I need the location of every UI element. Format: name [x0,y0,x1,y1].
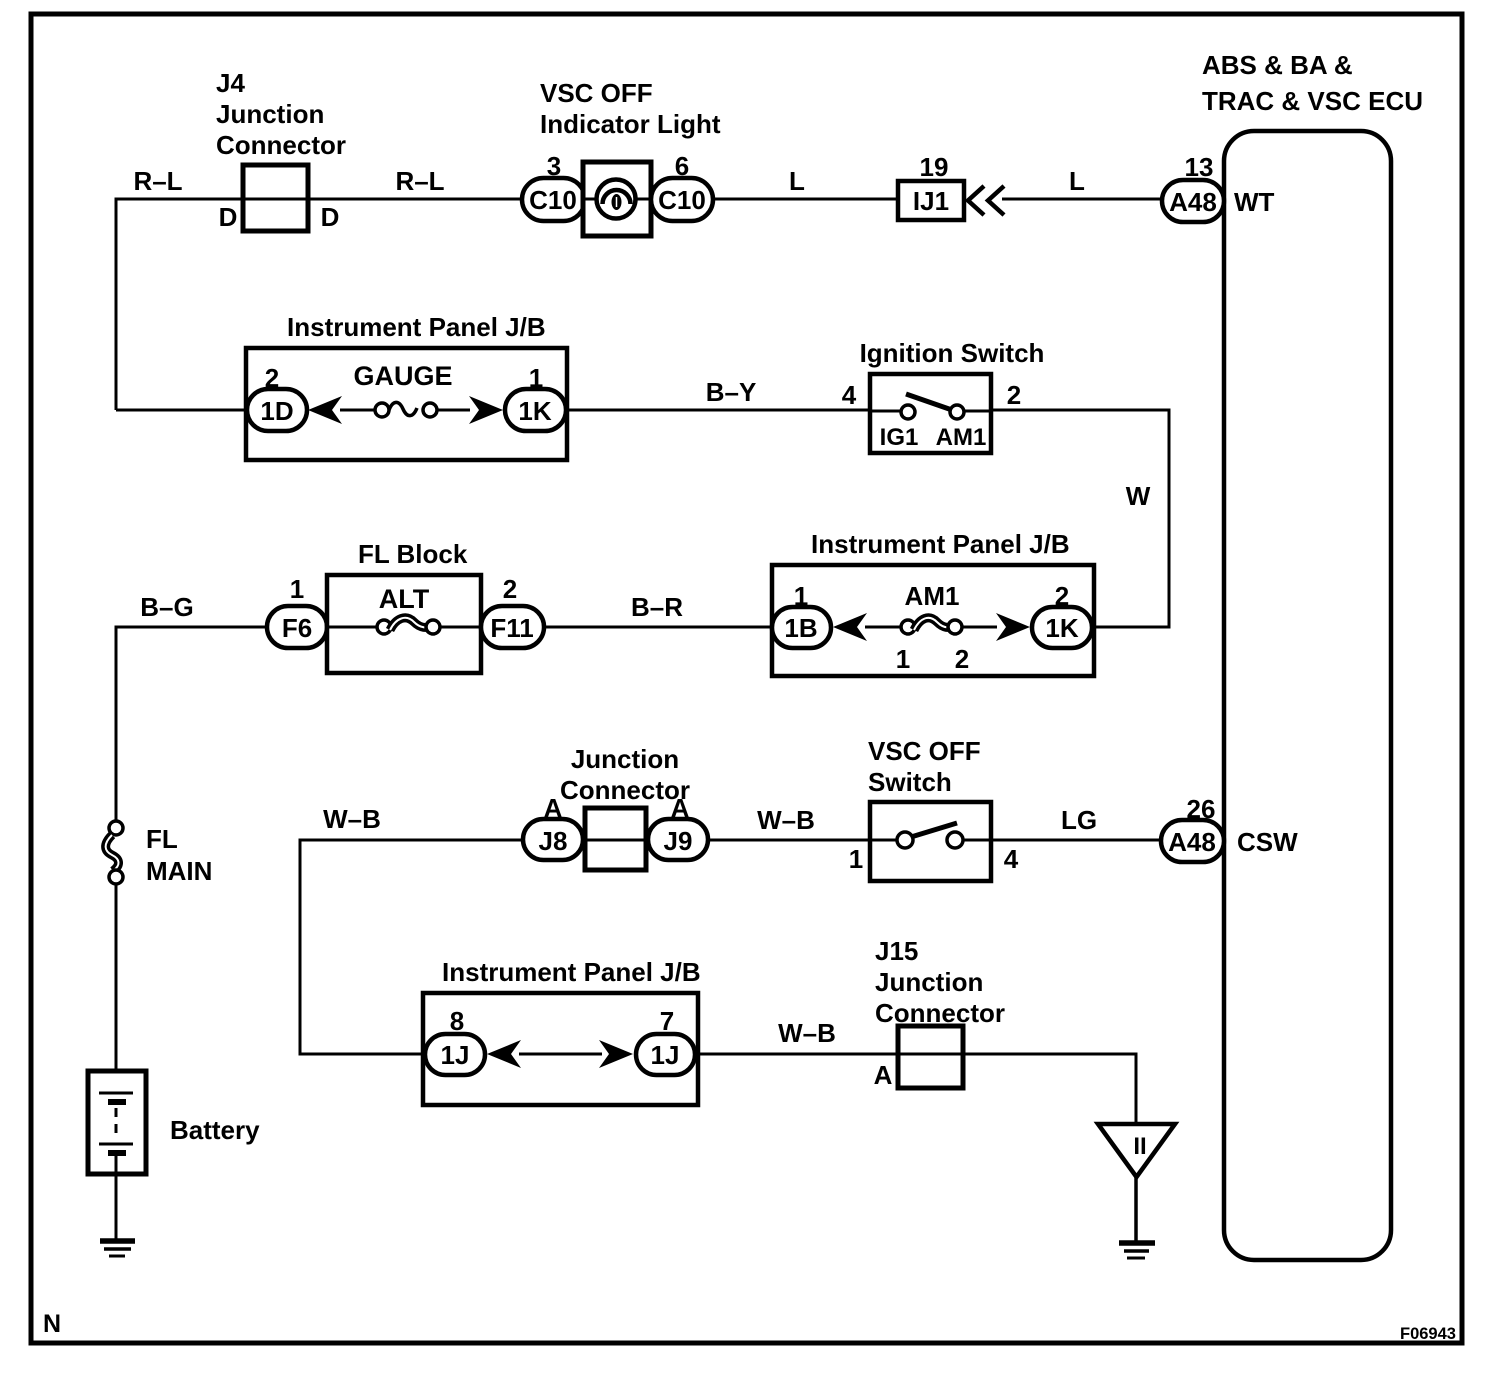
wire W-B to VSC OFF switch [708,839,870,842]
fuse AM1 [896,581,969,674]
wire from W-B corner to 1J [300,1053,425,1056]
svg-text:1J: 1J [651,1040,680,1070]
svg-text:ABS & BA &: ABS & BA & [1202,50,1353,80]
wire W-B to J15 [695,1053,898,1056]
svg-text:4: 4 [1004,844,1019,874]
svg-text:1: 1 [896,644,910,674]
svg-text:Ignition Switch: Ignition Switch [860,338,1045,368]
svg-text:C10: C10 [658,185,706,215]
svg-text:W: W [1126,481,1151,511]
wire B-R [544,626,772,629]
switch SW2 VSC OFF Switch [868,736,991,881]
wire W from ignition switch [991,409,1169,412]
svg-text:8: 8 [450,1006,464,1036]
svg-text:1D: 1D [260,396,293,426]
svg-text:19: 19 [920,152,949,182]
connector A48 pin 13 [1162,152,1224,222]
wire from 1K to W node [1092,626,1170,629]
svg-text:FL Block: FL Block [358,539,468,569]
svg-text:W–B: W–B [323,804,381,834]
arrow left [833,613,867,641]
Instrument Panel J/B (AM1) [772,529,1094,676]
svg-text:TRAC & VSC ECU: TRAC & VSC ECU [1202,86,1423,116]
connector 1J right [636,1034,695,1075]
junction connector J4 [216,68,346,231]
svg-text:R–L: R–L [133,166,182,196]
svg-text:VSC OFF: VSC OFF [540,78,653,108]
svg-text:VSC OFF: VSC OFF [868,736,981,766]
connector C10 pin 3 [522,151,585,221]
connector J9 [648,819,708,860]
svg-text:A48: A48 [1168,827,1216,857]
wire L from splice to A48 [1002,198,1164,201]
svg-text:L: L [1069,166,1085,196]
svg-text:1: 1 [849,844,863,874]
wire to fuse [340,409,376,412]
wire B-G [116,626,267,629]
svg-text:A48: A48 [1169,187,1217,217]
connector A48 pin 26 [1161,794,1224,862]
svg-text:ALT: ALT [379,584,430,614]
svg-text:7: 7 [660,1006,674,1036]
svg-text:CSW: CSW [1237,827,1298,857]
wire vertical to Instrument Panel J/B pin 1D [115,198,118,411]
svg-text:Connector: Connector [216,130,346,160]
wire B-Y to ignition switch [566,409,872,412]
ground (battery) [100,1241,135,1256]
arrow left [487,1040,521,1068]
svg-text:Instrument Panel J/B: Instrument Panel J/B [811,529,1070,559]
Instrument Panel J/B (1J) [423,957,701,1105]
svg-text:J4: J4 [216,68,245,98]
svg-text:AM1: AM1 [905,581,960,611]
wire to battery [115,884,118,1093]
wire from node to 1D [116,409,249,412]
svg-text:1K: 1K [1045,613,1078,643]
svg-text:Battery: Battery [170,1115,260,1145]
connector J8 [523,819,583,860]
svg-text:B–R: B–R [631,592,683,622]
connector 1K [505,389,566,431]
svg-text:J15: J15 [875,936,918,966]
wire R-L from node to J4 [116,198,522,201]
wire between arrows [519,1053,602,1056]
svg-text:C10: C10 [529,185,577,215]
svg-text:L: L [789,166,805,196]
wire from J15 to shield ground [963,1053,1136,1056]
Instrument Panel J/B (GAUGE) [246,312,567,460]
fusible link ALT [327,584,481,634]
connector 1J left [425,1034,485,1075]
svg-text:GAUGE: GAUGE [353,361,452,391]
svg-text:Indicator Light: Indicator Light [540,109,721,139]
ground (shield) [1119,1243,1155,1258]
svg-text:MAIN: MAIN [146,856,212,886]
svg-text:IJ1: IJ1 [913,186,949,216]
svg-text:Switch: Switch [868,767,952,797]
wire from fuse [962,626,997,629]
svg-text:F06943: F06943 [1400,1325,1456,1343]
svg-text:F11: F11 [490,613,533,643]
junction connector J15 [875,936,1005,1088]
connector 1B [772,607,831,648]
connector C10 pin 6 [651,151,713,221]
svg-text:Instrument Panel J/B: Instrument Panel J/B [442,957,701,987]
wire LG to A48 [991,839,1164,842]
svg-text:WT: WT [1234,187,1275,217]
wire to fuse [865,626,902,629]
svg-text:2: 2 [955,644,969,674]
connector 1D [247,389,307,431]
svg-text:FL: FL [146,824,178,854]
switch SW1 Ignition Switch [860,338,1045,453]
svg-text:Junction: Junction [875,967,983,997]
svg-text:1: 1 [290,574,304,604]
battery B1 [88,1071,260,1240]
svg-text:AM1: AM1 [936,424,987,451]
svg-text:J9: J9 [664,826,693,856]
junction connector IJ1 pin 19 [898,152,964,220]
wire to ground [1134,1177,1138,1241]
svg-text:13: 13 [1185,152,1214,182]
svg-text:R–L: R–L [395,166,444,196]
svg-text:1B: 1B [784,613,817,643]
svg-text:F6: F6 [282,613,312,643]
fusible link FL MAIN [106,821,213,886]
lamp VSC OFF Indicator Light [540,78,721,236]
svg-text:IG1: IG1 [880,424,919,451]
svg-text:2: 2 [503,574,517,604]
svg-text:D: D [321,202,340,232]
svg-text:J8: J8 [539,826,568,856]
wire from fuse [437,409,470,412]
arrow right [599,1040,633,1068]
wire L from C10 to IJ1 [713,198,898,201]
arrow right [469,396,503,424]
connector 1K [1032,607,1092,648]
wire W-B from corner to J8 [300,839,523,842]
svg-text:B–G: B–G [140,592,193,622]
svg-text:W–B: W–B [757,805,815,835]
svg-text:B–Y: B–Y [706,377,757,407]
junction connector (J8/J9) [560,744,690,870]
svg-text:Junction: Junction [571,744,679,774]
svg-text:Junction: Junction [216,99,324,129]
svg-text:A: A [874,1060,893,1090]
svg-text:1J: 1J [441,1040,470,1070]
svg-text:2: 2 [1007,380,1021,410]
svg-text:N: N [43,1310,61,1338]
connector F6 [267,606,327,648]
svg-text:Instrument Panel J/B: Instrument Panel J/B [287,312,546,342]
connector F11 [481,606,544,648]
svg-text:4: 4 [842,380,857,410]
shield ground II [1098,1124,1175,1177]
arrow right [996,613,1030,641]
wire left vertical to battery [115,626,118,823]
svg-text:II: II [1133,1133,1146,1160]
svg-text:LG: LG [1061,805,1097,835]
splice chevrons [968,186,984,215]
svg-text:D: D [219,202,238,232]
svg-text:1K: 1K [518,396,551,426]
ECU U1 ABS & BA & TRAC & VSC ECU [1202,50,1423,1260]
svg-text:W–B: W–B [778,1018,836,1048]
FL Block [327,539,481,673]
arrow left [308,396,342,424]
fuse GAUGE [353,361,452,417]
